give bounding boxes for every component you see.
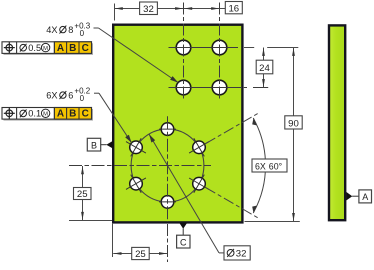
leader 6X holes [94, 93, 132, 143]
svg-text:24: 24 [259, 63, 270, 74]
datum B [87, 138, 113, 151]
svg-text:6X: 6X [46, 91, 57, 101]
centerline row 1 [169, 47, 239, 49]
bolt hole 210deg [126, 175, 146, 193]
hole row2 col2 [212, 80, 227, 95]
bolt hole 150deg [126, 138, 146, 156]
hole top-right (row1 col2) [212, 40, 227, 55]
svg-text:C: C [82, 109, 89, 120]
svg-text:16: 16 [228, 3, 239, 14]
svg-text:M: M [43, 112, 48, 118]
svg-text:B: B [69, 43, 76, 54]
svg-text:32: 32 [236, 248, 247, 259]
leader 4X holes [94, 28, 179, 83]
svg-text:0: 0 [80, 94, 85, 103]
side view plate [329, 25, 345, 220]
dimension 25 left [69, 166, 112, 221]
svg-text:0.1: 0.1 [28, 109, 41, 119]
dimension 16 [184, 2, 242, 15]
label Ø32 with leader [149, 134, 250, 260]
hole row2 col1 [176, 80, 191, 95]
bolt hole 90deg [159, 123, 176, 136]
bolt hole 30deg [189, 138, 209, 156]
svg-text:M: M [43, 46, 48, 52]
svg-text:B: B [69, 109, 76, 120]
datum A [346, 190, 371, 203]
svg-text:6X: 6X [255, 161, 266, 171]
svg-text:A: A [57, 43, 64, 54]
feature control frame FCF2 position Ø0.1 M A B C [2, 108, 93, 121]
centerline row 2 [169, 87, 269, 89]
svg-text:6: 6 [68, 91, 73, 101]
svg-text:90: 90 [288, 118, 299, 129]
note 4X Ø8 +0.3/0 [46, 21, 90, 37]
bolt circle Ø32 [131, 129, 204, 202]
svg-text:8: 8 [68, 25, 73, 35]
note 6X Ø6 +0.2/0 [46, 86, 90, 103]
svg-text:A: A [57, 109, 64, 120]
bolt hole 270deg [159, 196, 176, 209]
svg-text:A: A [362, 192, 368, 202]
dimension 32 [115, 2, 184, 21]
6X 60 label box [252, 159, 287, 172]
dimension 25 bottom [113, 224, 168, 260]
svg-text:C: C [82, 43, 89, 54]
bolt circle vertical centerline [167, 116, 169, 262]
centerline column 1 [183, 3, 185, 101]
svg-text:C: C [180, 237, 187, 247]
bolt circle horizontal centerline [69, 165, 211, 167]
radial extension 30deg [206, 113, 258, 143]
hole top-left (row1 col1) [176, 40, 191, 55]
svg-text:25: 25 [135, 249, 146, 260]
svg-text:60°: 60° [269, 161, 282, 171]
dimension 24 [244, 48, 298, 88]
feature control frame FCF1 position Ø0.5 M A B C [2, 42, 93, 55]
svg-text:25: 25 [77, 189, 88, 200]
centerline column 2 [219, 3, 221, 101]
svg-text:0: 0 [80, 29, 85, 38]
dimension 90 [245, 48, 303, 222]
svg-text:B: B [91, 140, 97, 150]
bolt hole 330deg [189, 175, 209, 193]
datum C [177, 223, 190, 248]
plate front view [113, 25, 242, 223]
angular dimension arc 6X 60 [252, 118, 265, 214]
svg-text:4X: 4X [46, 25, 57, 35]
svg-text:32: 32 [143, 4, 154, 15]
radial extension 330deg [206, 188, 258, 218]
svg-text:0.5: 0.5 [28, 43, 41, 53]
